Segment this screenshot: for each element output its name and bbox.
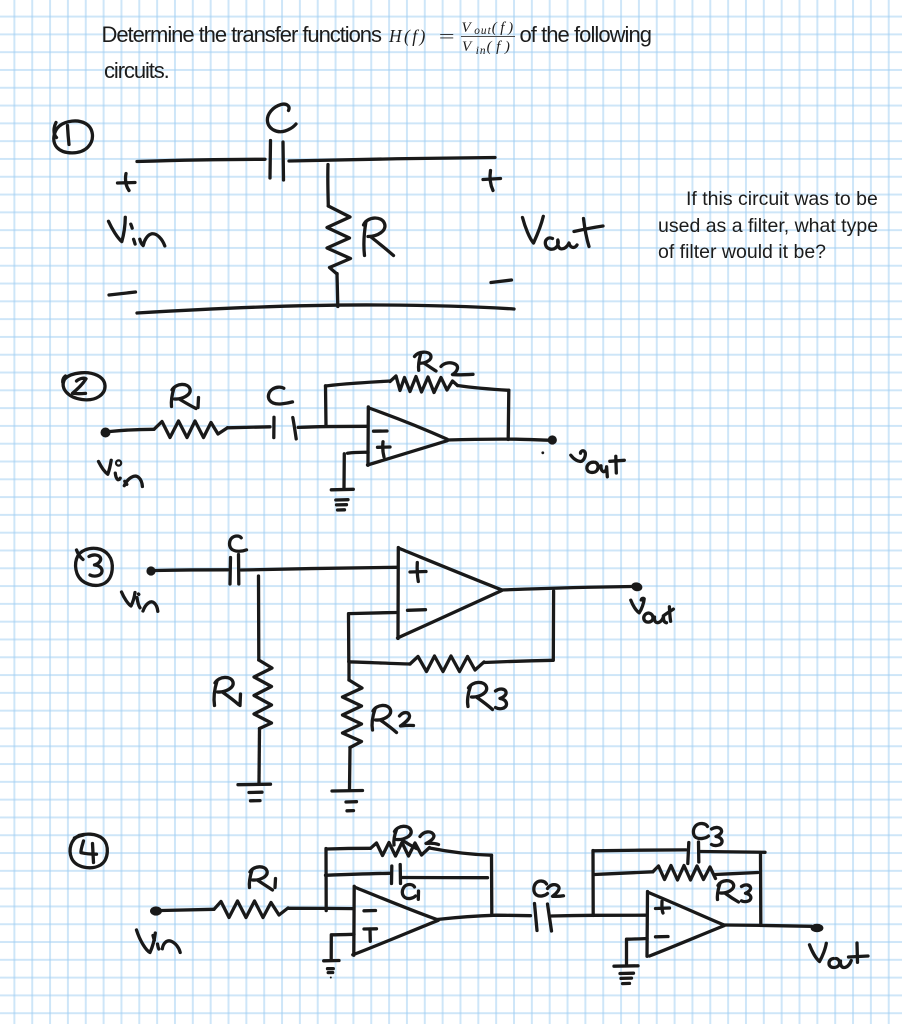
C3 rail left wire — [594, 848, 686, 852]
resistor R1 zigzag (circuit 3) — [254, 660, 272, 729]
output wire (stage 2) — [724, 925, 812, 926]
wire R to bottom rail — [335, 274, 339, 307]
op-amp minus pin (circuit 3) — [408, 608, 426, 612]
typed side note — [686, 190, 878, 210]
R3 rail right wire (circuit 4) — [716, 873, 758, 875]
wire R1 to C — [228, 427, 271, 428]
op-amp triangle (stage 2, circuit 4) — [647, 892, 724, 957]
wire C to op-amp plus input — [241, 567, 397, 570]
input node dot (circuit 2) — [101, 428, 111, 438]
wire input to R1 — [162, 909, 215, 910]
resistor R2 label (circuit 3) — [372, 705, 413, 732]
op-amp triangle (stage 1, circuit 4) — [353, 886, 439, 955]
resistor R3 zigzag (circuit 4) — [653, 866, 716, 881]
wire top-left (Vin+ to C) — [137, 159, 265, 161]
Vout label (circuit 1) — [523, 216, 604, 249]
feedback rail left wire (circuit 3) — [349, 662, 410, 664]
resistor R2 zigzag (circuit 4) — [371, 843, 430, 857]
Vout label (circuit 4) — [810, 943, 869, 968]
feedback top rail wire — [326, 381, 391, 386]
feedback left vertical wire (stage 2) — [591, 851, 595, 916]
capacitor C label (circuit 2) — [268, 387, 292, 404]
plus terminal right — [483, 171, 501, 191]
capacitor C label — [267, 104, 296, 132]
resistor R2 label (circuit 4) — [394, 826, 439, 848]
ground symbol (R1, circuit 3) — [238, 784, 271, 801]
Vin label (circuit 1) — [109, 217, 165, 246]
op-amp inverting pin minus — [374, 429, 388, 433]
feedback rail right wire (circuit 3) — [484, 660, 553, 662]
capacitor C1 plates — [392, 865, 401, 884]
resistor R3 label (circuit 3) — [468, 682, 507, 709]
capacitor C plates (circuit 2) — [274, 417, 296, 439]
output node dot (circuit 3) — [630, 581, 643, 592]
C1 rail right wire — [403, 876, 488, 880]
wire C to op-amp inverting input — [298, 426, 367, 427]
feedback right vertical wire (stage 2) — [759, 853, 763, 926]
capacitor C2 plates — [535, 904, 552, 932]
C3 rail right wire — [701, 850, 766, 854]
feedback right vertical wire (circuit 3) — [552, 591, 556, 660]
R3 rail left wire (circuit 4) — [594, 872, 653, 875]
wire R2 to ground — [348, 748, 352, 790]
output node dot (circuit 4) — [811, 924, 824, 932]
resistor R label — [364, 218, 394, 255]
typed title line 1 end — [520, 24, 652, 46]
capacitor C plates (circuit 3) — [230, 555, 239, 585]
op-amp non-inverting pin plus — [378, 442, 391, 457]
feedback left vertical wire — [324, 386, 328, 426]
typed math H(f)= — [389, 28, 428, 46]
op-amp plus pin (circuit 3) — [410, 563, 426, 582]
feedback right vertical wire — [507, 390, 511, 439]
op-amp minus pin (stage 2) — [656, 935, 669, 939]
wire input to R1 — [110, 429, 154, 431]
circled number 3 — [76, 548, 113, 585]
feedback rail right wire — [458, 386, 509, 391]
wire from top wire down to R — [326, 165, 330, 207]
output node dot (circuit 2) — [548, 435, 557, 444]
fraction bar — [461, 36, 515, 38]
wire non-inverting input to ground (stage 1) — [331, 934, 354, 958]
pen speck — [541, 451, 544, 454]
op-amp plus pin T (stage 1) — [364, 929, 377, 942]
wire non-inverting input to ground — [344, 452, 368, 488]
resistor R1 label (circuit 4) — [249, 867, 275, 890]
Vin label (circuit 3) — [122, 592, 158, 611]
ground symbol (R2, circuit 3) — [332, 791, 363, 811]
input node dot (circuit 4) — [150, 906, 162, 915]
circled number 2 — [63, 373, 105, 400]
wire C2 to op-amp 2 — [552, 914, 646, 918]
output wire (circuit 2) — [447, 439, 548, 440]
op-amp U1 triangle (circuit 2) — [368, 407, 448, 465]
output wire (circuit 3) — [502, 587, 632, 591]
typed fraction numerator Vout(f) — [462, 21, 517, 36]
resistor R2 zigzag (circuit 3) — [343, 680, 363, 748]
resistor R1 zigzag (circuit 4) — [214, 901, 288, 918]
capacitor C3 label — [693, 824, 722, 846]
wire down to R1 — [257, 576, 261, 660]
wire inverting input left-down — [349, 613, 397, 662]
ground symbol (stage 2) — [614, 966, 638, 984]
feedback left vertical wire (stage 1) — [324, 849, 328, 911]
C1 rail left wire — [326, 873, 390, 875]
output wire (stage 1) — [437, 915, 531, 919]
feedback right vertical wire (stage 1) — [490, 855, 494, 915]
op-amp minus pin (stage 1) — [364, 909, 376, 913]
plus terminal left — [118, 174, 136, 191]
resistor R3 label (circuit 4) — [717, 881, 750, 902]
ground symbol (stage 1) — [324, 961, 339, 979]
circled number 1 — [54, 121, 93, 153]
op-amp U2 triangle (circuit 3) — [398, 548, 502, 639]
typed title line 1 — [102, 24, 381, 46]
resistor R1 label (circuit 2) — [171, 384, 198, 408]
resistor R2 label (circuit 2) — [415, 352, 474, 375]
resistor R3 zigzag (circuit 3) — [410, 656, 484, 672]
Vout label (circuit 3) — [631, 598, 674, 622]
wire top-right (C to Vout+) — [289, 158, 495, 162]
capacitor C2 label — [534, 881, 564, 896]
typed title line 2 — [104, 60, 169, 82]
capacitor C3 plates — [688, 842, 699, 864]
R2 rail right wire (circuit 4) — [430, 848, 492, 855]
wire inverting input to ground (stage 2) — [627, 939, 648, 964]
resistor R1 label (circuit 3) — [214, 677, 240, 705]
bottom rail wire — [137, 305, 514, 313]
capacitor C1 label — [402, 884, 418, 899]
capacitor C plates — [270, 141, 284, 181]
R2 rail left wire (circuit 4) — [327, 847, 371, 851]
resistor R zigzag — [327, 206, 351, 274]
Vin label (circuit 4) — [137, 930, 181, 953]
minus terminal left — [109, 292, 136, 295]
wire junction to R2 — [347, 662, 350, 681]
capacitor C label (circuit 3) — [230, 536, 247, 551]
minus terminal right — [491, 280, 512, 283]
Vout label (circuit 2) — [571, 451, 625, 477]
resistor R2 zigzag (circuit 2) — [390, 376, 458, 393]
wire R1 to ground — [257, 729, 261, 784]
wire input to C — [156, 568, 229, 572]
ground symbol (circuit 2) — [331, 489, 353, 510]
op-amp plus pin (stage 2) — [656, 901, 670, 913]
wire R1 to op-amp — [288, 907, 354, 911]
circled number 4 — [70, 834, 107, 868]
Vin label (circuit 2) — [99, 460, 143, 486]
input node dot (circuit 3) — [146, 566, 155, 575]
resistor R1 zigzag (circuit 2) — [154, 421, 228, 438]
typed fraction denominator Vin(f) — [462, 40, 515, 55]
